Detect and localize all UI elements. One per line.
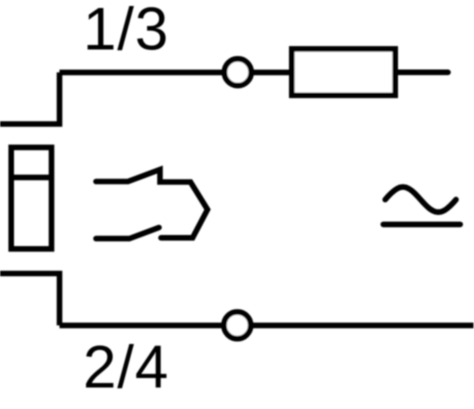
wire top-left lead xyxy=(0,72,60,124)
plug symbol upper contact and outline xyxy=(96,170,208,238)
pin label 2/4 xyxy=(83,334,169,401)
terminal circle top xyxy=(224,59,251,86)
AC symbol sine wave xyxy=(385,187,456,212)
terminal circle bottom xyxy=(224,312,251,339)
wire bottom horizontal (pin 2/4 to right edge) xyxy=(60,323,474,329)
AC symbol underline xyxy=(383,222,460,228)
pin label 1/3 xyxy=(83,0,169,63)
wire bottom-left lead xyxy=(0,274,60,326)
fuse F1 divider line xyxy=(9,175,54,181)
svg-text:2/4: 2/4 xyxy=(83,334,169,401)
wire top-right lead xyxy=(395,70,448,76)
fuse F1 body xyxy=(11,147,51,249)
wire top horizontal (pin 1/3 to resistor) xyxy=(60,70,292,76)
plug symbol lower contact blade xyxy=(96,228,159,239)
resistor R xyxy=(292,49,395,95)
svg-text:1/3: 1/3 xyxy=(83,0,169,63)
